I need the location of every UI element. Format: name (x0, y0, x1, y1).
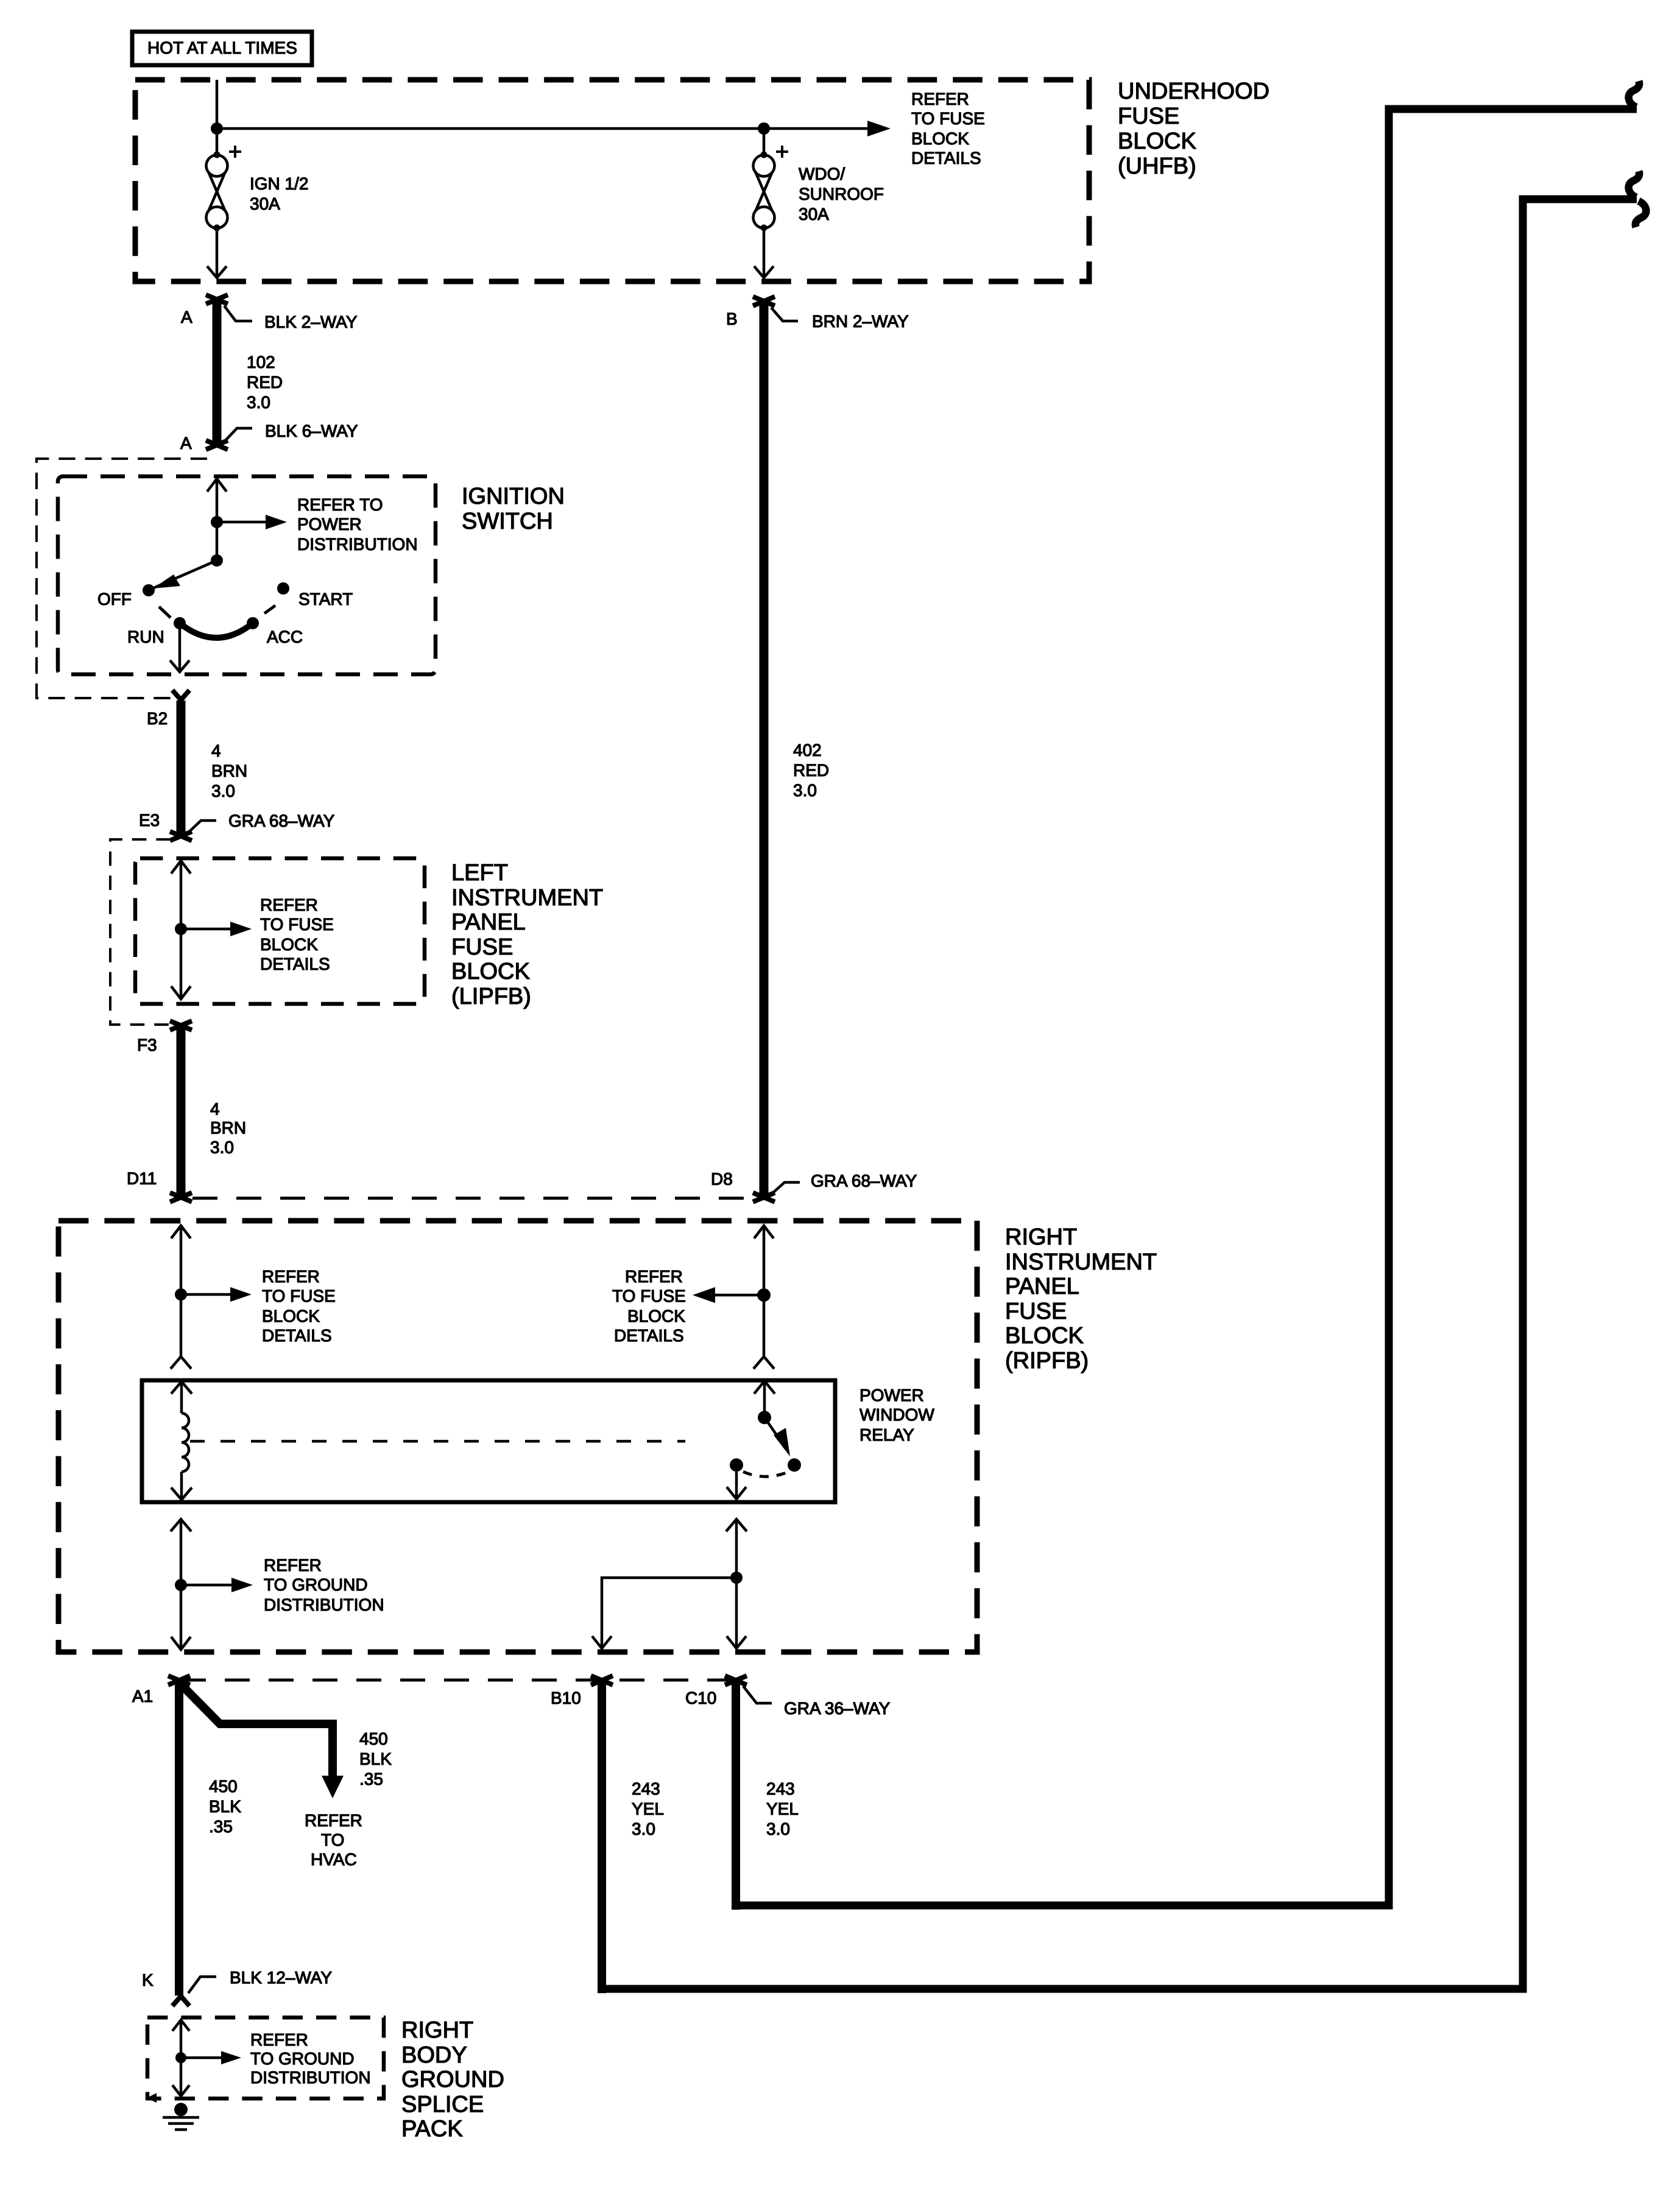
power window relay box (142, 1380, 835, 1502)
svg-text:BLK 2–WAY: BLK 2–WAY (264, 312, 358, 331)
svg-text:B: B (726, 309, 738, 328)
svg-text:102: 102 (247, 353, 275, 372)
svg-text:GRA 68–WAY: GRA 68–WAY (228, 811, 335, 830)
arrow to fuse block details (181, 928, 231, 931)
right feed wire from D8 (754, 1226, 774, 1238)
arrow to ground distribution (181, 1584, 233, 1587)
svg-text:3.0: 3.0 (210, 1138, 234, 1157)
dashed link D11 to D8 (192, 1197, 753, 1200)
svg-text:IGN 1/2: IGN 1/2 (250, 174, 308, 193)
svg-text:BLOCK: BLOCK (911, 129, 969, 148)
svg-text:402: 402 (793, 741, 822, 760)
svg-text:B2: B2 (147, 709, 168, 728)
svg-text:REFER: REFER (264, 1556, 322, 1575)
svg-text:SPLICE: SPLICE (401, 2092, 484, 2117)
wire 402 RED 3.0 (760, 302, 769, 1195)
dashed connector line A1-B10-C10 (181, 1679, 736, 1682)
svg-text:START: START (298, 590, 353, 609)
arrow to fuse block details left (181, 1293, 231, 1296)
svg-text:POWER: POWER (297, 515, 362, 534)
relay movable arm (764, 1417, 781, 1441)
contact RUN (174, 617, 186, 629)
svg-text:243: 243 (632, 1779, 660, 1798)
fuse IGN output arrow (216, 228, 219, 275)
dash between OFF and RUN (159, 607, 171, 618)
svg-text:TO FUSE: TO FUSE (260, 915, 334, 934)
contact START (277, 582, 289, 595)
off-page wire from B10 up right side (602, 199, 1637, 1989)
dashed arc between contacts (743, 1472, 789, 1477)
svg-text:TO FUSE: TO FUSE (911, 109, 985, 128)
svg-text:3.0: 3.0 (632, 1820, 655, 1838)
node ignition feed (211, 516, 223, 528)
svg-text:ACC: ACC (267, 627, 303, 646)
node splice tap (175, 2052, 186, 2063)
svg-text:BLOCK: BLOCK (1005, 1323, 1084, 1349)
svg-text:DISTRIBUTION: DISTRIBUTION (297, 535, 418, 554)
svg-text:GRA 68–WAY: GRA 68–WAY (811, 1171, 917, 1190)
svg-text:RED: RED (247, 373, 283, 392)
svg-text:BRN: BRN (211, 761, 247, 780)
svg-text:(LIPFB): (LIPFB) (451, 984, 531, 1009)
ground symbol (174, 2103, 188, 2116)
left feed wire from D11 (171, 1226, 191, 1238)
svg-text:FUSE: FUSE (1005, 1299, 1067, 1324)
fuse WDO/SUNROOF 30A (754, 146, 884, 231)
svg-text:REFER: REFER (625, 1267, 683, 1286)
relay coil (182, 1413, 189, 1472)
svg-text:BLK: BLK (359, 1749, 392, 1768)
svg-text:E3: E3 (139, 811, 160, 830)
svg-text:30A: 30A (250, 194, 280, 213)
svg-text:TO GROUND: TO GROUND (250, 2049, 355, 2068)
off-page connector S top (1629, 81, 1640, 107)
svg-text:GRA 36–WAY: GRA 36–WAY (784, 1699, 891, 1718)
svg-text:BLK: BLK (209, 1797, 241, 1816)
svg-text:DISTRIBUTION: DISTRIBUTION (264, 1595, 384, 1614)
svg-text:DETAILS: DETAILS (911, 149, 981, 168)
off-page wire from C10 up right side (736, 109, 1637, 1905)
ignition input arrow (207, 479, 227, 492)
svg-text:D8: D8 (711, 1170, 733, 1188)
contact ACC (247, 617, 259, 629)
svg-text:4: 4 (210, 1100, 220, 1118)
relay contact NO (788, 1458, 801, 1472)
arrow to power distribution (217, 521, 268, 524)
RIPFB outer dashed box (58, 1221, 977, 1652)
underhood fuse block UHFB dashed box (135, 80, 1089, 281)
svg-text:REFER: REFER (305, 1811, 362, 1830)
svg-text:TO GROUND: TO GROUND (264, 1575, 368, 1594)
svg-text:BLOCK: BLOCK (627, 1307, 685, 1326)
svg-text:REFER: REFER (250, 2030, 308, 2049)
svg-text:BLOCK: BLOCK (451, 959, 530, 984)
relay coil branch (171, 1382, 192, 1394)
svg-text:3.0: 3.0 (211, 782, 235, 800)
wire 102 RED 3.0 (213, 300, 222, 443)
svg-text:DETAILS: DETAILS (614, 1326, 684, 1345)
LIPFB outer dashed box (110, 839, 171, 1025)
branch wire 450 BLK to HVAC (180, 1684, 333, 1778)
svg-text:WDO/: WDO/ (799, 164, 845, 183)
right body ground splice pack dashed box (147, 2018, 384, 2099)
node left feed tap (175, 1288, 187, 1301)
svg-text:(UHFB): (UHFB) (1118, 154, 1196, 179)
svg-text:450: 450 (359, 1729, 388, 1748)
svg-text:3.0: 3.0 (766, 1820, 790, 1838)
run-acc thick arc (180, 623, 253, 638)
svg-text:3.0: 3.0 (793, 781, 817, 800)
svg-text:BODY: BODY (401, 2042, 467, 2068)
svg-text:B10: B10 (551, 1689, 581, 1707)
left wire break chevron (171, 1357, 191, 1369)
svg-text:RIGHT: RIGHT (401, 2018, 473, 2043)
svg-text:OFF: OFF (97, 590, 132, 609)
svg-text:SUNROOF: SUNROOF (799, 185, 884, 203)
svg-text:A1: A1 (132, 1687, 153, 1706)
svg-text:F3: F3 (137, 1036, 157, 1054)
relay switched output below (726, 1519, 747, 1531)
wire from HOT box into UHFB (216, 80, 219, 157)
relay control dashed line (190, 1440, 685, 1443)
svg-text:RIGHT: RIGHT (1005, 1224, 1077, 1250)
LIPFB internal wire with arrows (171, 861, 191, 874)
svg-text:INSTRUMENT: INSTRUMENT (451, 885, 603, 911)
contact OFF (143, 584, 155, 596)
svg-text:POWER: POWER (859, 1386, 924, 1405)
connector C10 GRA 36-WAY (725, 1676, 747, 1685)
svg-text:REFER: REFER (262, 1267, 320, 1286)
svg-text:TO FUSE: TO FUSE (262, 1287, 336, 1305)
svg-text:INSTRUMENT: INSTRUMENT (1005, 1249, 1157, 1275)
svg-text:SWITCH: SWITCH (462, 509, 553, 534)
svg-text:DETAILS: DETAILS (260, 955, 330, 973)
svg-text:C10: C10 (685, 1689, 716, 1707)
svg-text:TO: TO (321, 1830, 344, 1849)
svg-text:D11: D11 (127, 1169, 157, 1188)
svg-text:A: A (180, 434, 192, 453)
svg-text:.35: .35 (209, 1817, 233, 1836)
wire bus to WDO fuse with arrow to fuse block details (217, 127, 870, 130)
svg-text:BLK 6–WAY: BLK 6–WAY (265, 422, 358, 440)
svg-text:FUSE: FUSE (1118, 104, 1179, 129)
svg-text:UNDERHOOD: UNDERHOOD (1118, 79, 1269, 104)
svg-text:REFER: REFER (911, 90, 969, 108)
ignition output wire to B2 (178, 629, 182, 671)
dash between ACC and START (264, 605, 275, 613)
node switch rotor pivot (211, 554, 223, 567)
connector B10 (591, 1676, 613, 1685)
svg-text:WINDOW: WINDOW (859, 1405, 934, 1424)
svg-text:BLK 12–WAY: BLK 12–WAY (230, 1968, 332, 1987)
svg-text:BLOCK: BLOCK (1118, 129, 1196, 154)
node switched output tap (730, 1572, 743, 1584)
svg-text:FUSE: FUSE (451, 934, 513, 960)
node junction at WDO fuse feed (758, 122, 770, 135)
svg-text:30A: 30A (799, 205, 829, 224)
fuse WDO output arrow (763, 228, 766, 275)
node junction at fuse IGN feed (211, 122, 223, 135)
wire 4 BRN 3.0 lower (177, 1026, 186, 1195)
svg-text:PACK: PACK (401, 2116, 463, 2142)
svg-text:A: A (181, 308, 192, 327)
connector A1 (168, 1676, 190, 1685)
svg-text:HOT AT ALL TIMES: HOT AT ALL TIMES (147, 38, 297, 57)
svg-text:(RIPFB): (RIPFB) (1005, 1348, 1089, 1374)
svg-text:YEL: YEL (766, 1799, 799, 1818)
relay coil ground path below (171, 1519, 191, 1531)
svg-text:GROUND: GROUND (401, 2067, 504, 2092)
wire 450 BLK from A1 (175, 1681, 183, 1996)
relay contact NC output (730, 1458, 743, 1472)
svg-text:PANEL: PANEL (1005, 1274, 1079, 1299)
wire 243 YEL from C10 (732, 1681, 740, 1910)
svg-text:BLOCK: BLOCK (260, 935, 318, 954)
fuse IGN 1/2 30A (206, 146, 309, 231)
node LIPFB tap (175, 923, 187, 935)
svg-text:RELAY: RELAY (859, 1425, 914, 1444)
relay common contact (754, 1381, 775, 1394)
connector A BLK 2-WAY (206, 295, 228, 304)
svg-text:BRN: BRN (210, 1118, 246, 1137)
LIPFB inner dashed box (135, 858, 425, 1004)
connector B2 (172, 690, 189, 700)
continuation arrow on splice box bottom edge (147, 2093, 157, 2103)
svg-text:DISTRIBUTION: DISTRIBUTION (250, 2068, 371, 2087)
arrow to ground distribution (181, 2056, 222, 2060)
svg-text:K: K (142, 1971, 154, 1989)
relay output arrow down (735, 1472, 738, 1499)
arrow to fuse block details right (714, 1294, 764, 1297)
svg-text:DETAILS: DETAILS (262, 1326, 332, 1345)
svg-text:4: 4 (211, 741, 221, 760)
svg-text:RED: RED (793, 761, 829, 780)
svg-text:BLOCK: BLOCK (262, 1307, 320, 1326)
svg-text:REFER: REFER (260, 895, 318, 914)
connector B BRN 2-WAY (753, 297, 775, 306)
svg-text:RUN: RUN (127, 627, 164, 646)
switch wiper arm toward OFF (151, 560, 217, 589)
branch to B10 (602, 1578, 736, 1648)
ignition switch outer dashed box (37, 459, 207, 698)
hot-at-all-times label box (132, 32, 312, 65)
svg-text:.35: .35 (359, 1770, 383, 1788)
node ground tap (175, 1579, 187, 1591)
svg-text:BRN 2–WAY: BRN 2–WAY (812, 312, 909, 331)
svg-text:243: 243 (766, 1779, 795, 1798)
svg-text:PANEL: PANEL (451, 909, 526, 935)
off-page connector S lower (1629, 171, 1640, 197)
node right feed tap (757, 1288, 771, 1302)
ignition switch inner dashed box (58, 476, 436, 674)
splice internal wire (172, 2020, 189, 2031)
wire 4 BRN 3.0 (177, 701, 186, 836)
svg-text:LEFT: LEFT (451, 860, 508, 886)
svg-text:IGNITION: IGNITION (462, 484, 565, 509)
svg-text:YEL: YEL (632, 1799, 664, 1818)
svg-text:3.0: 3.0 (247, 393, 270, 412)
wire 243 YEL from B10 (598, 1681, 606, 1993)
svg-text:HVAC: HVAC (311, 1850, 357, 1869)
right wire break chevron (754, 1357, 774, 1369)
svg-text:450: 450 (209, 1777, 238, 1796)
svg-text:REFER TO: REFER TO (297, 495, 383, 514)
svg-text:TO FUSE: TO FUSE (612, 1287, 686, 1305)
